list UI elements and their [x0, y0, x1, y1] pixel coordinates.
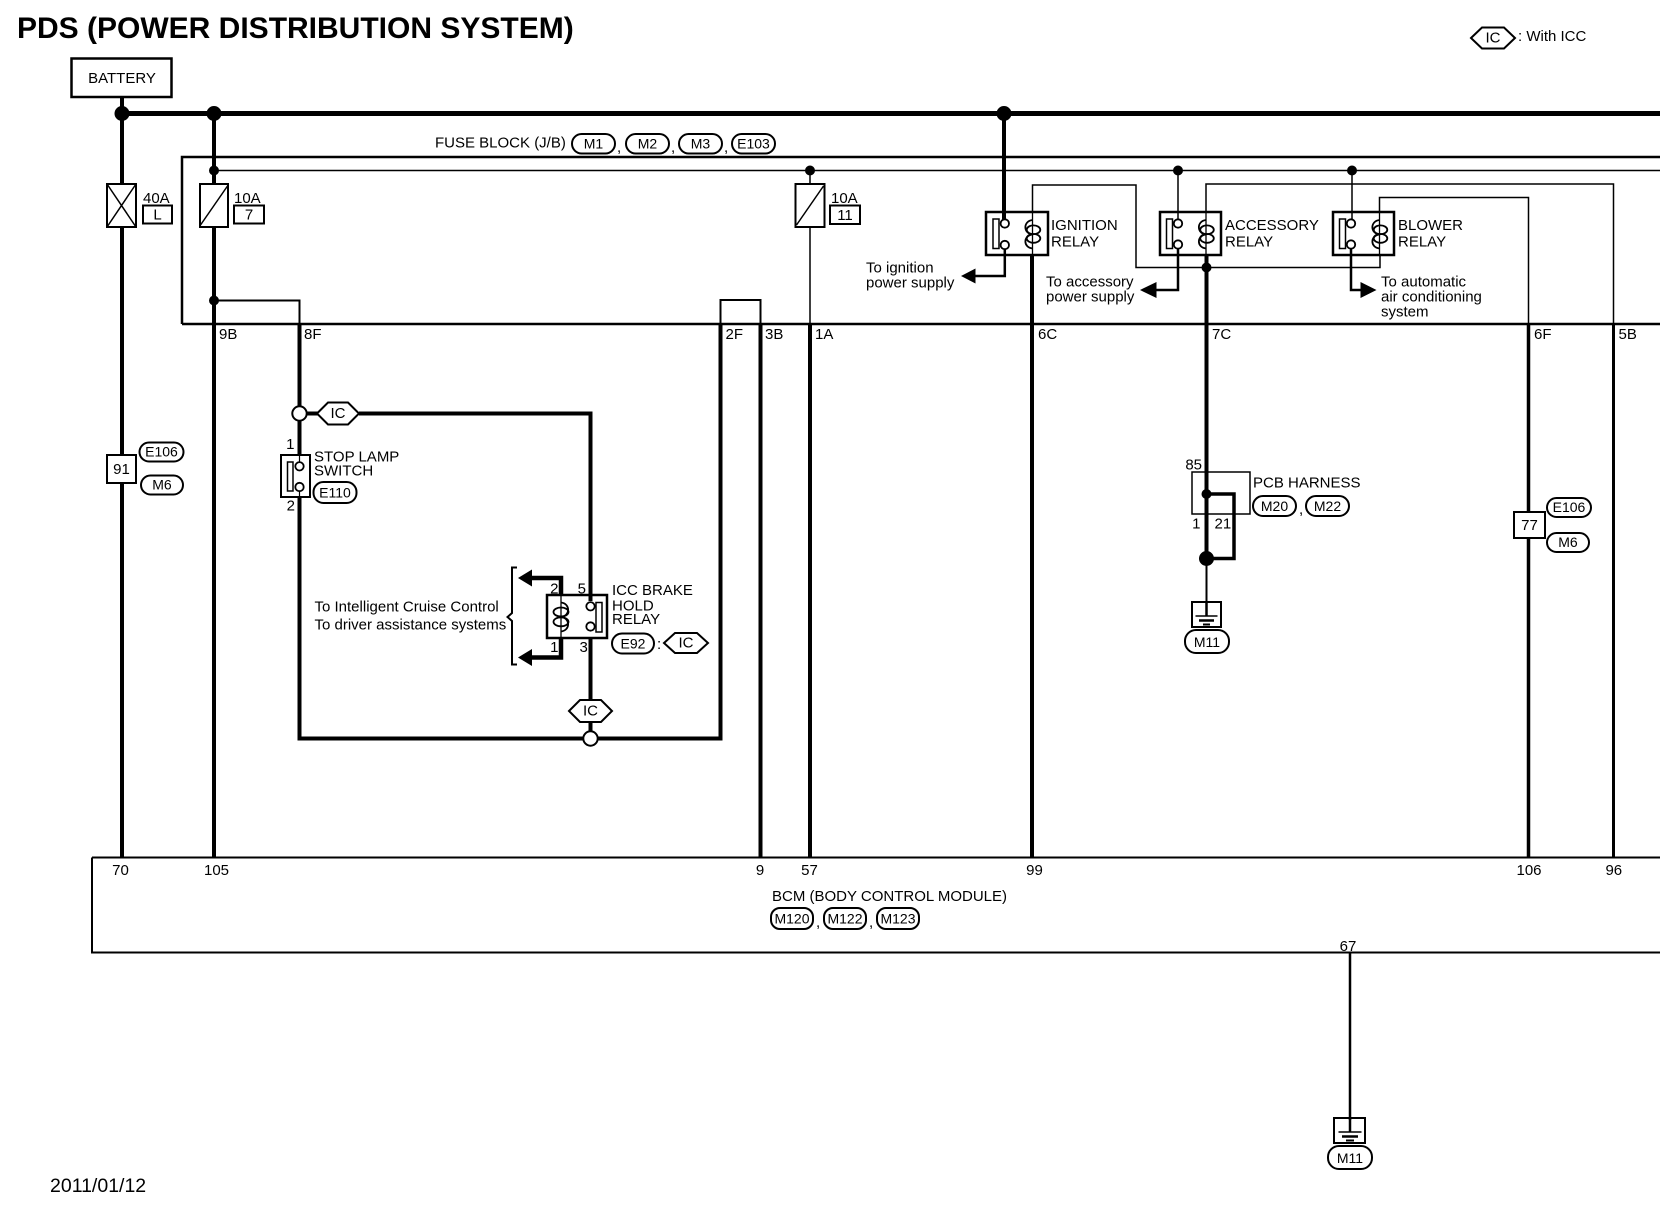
svg-text:91: 91 [113, 461, 130, 478]
wire 6F to BCM pin 106 [1527, 324, 1531, 857]
svg-text:: With ICC: : With ICC [1518, 28, 1587, 45]
svg-text:ICC BRAKE: ICC BRAKE [612, 582, 693, 599]
wire circle to IC flag [307, 412, 319, 416]
svg-text:IC: IC [679, 635, 694, 652]
bracket ICC arrows [508, 568, 518, 665]
BCM pin 70 [112, 862, 129, 879]
wire battery to bus [120, 97, 124, 113]
terminal 5B [1619, 326, 1637, 343]
fuse block internal bus [214, 170, 1660, 172]
connector 77 box [1514, 512, 1545, 538]
svg-text:M6: M6 [152, 477, 172, 493]
wire tap to accessory relay contact [1177, 171, 1179, 221]
IC flag stop lamp branch [317, 403, 359, 425]
svg-text:11: 11 [837, 207, 853, 224]
svg-text:1: 1 [1192, 516, 1200, 533]
wire PCB pin 1 [1205, 494, 1209, 559]
svg-text:,: , [1299, 501, 1303, 518]
label blower relay [1398, 217, 1463, 251]
svg-text:power supply: power supply [1046, 289, 1135, 306]
svg-text:PDS (POWER DISTRIBUTION SYSTEM: PDS (POWER DISTRIBUTION SYSTEM) [17, 12, 574, 45]
svg-text:system: system [1381, 304, 1429, 321]
junction PCB pin 85 [1202, 489, 1212, 499]
connector ref M6 right [1547, 533, 1589, 552]
blower relay [1333, 212, 1394, 255]
wire accessory coil top to 5B [1206, 184, 1614, 324]
pin 2 label [550, 581, 558, 598]
svg-text:RELAY: RELAY [612, 611, 660, 628]
svg-text:,: , [724, 139, 728, 156]
junction accessory relay tap [1173, 166, 1183, 176]
svg-text:RELAY: RELAY [1225, 234, 1273, 251]
svg-text::: : [657, 636, 661, 653]
pin 1 stop lamp switch [286, 436, 294, 453]
svg-text:M6: M6 [1558, 534, 1578, 550]
IC flag bottom [569, 700, 612, 722]
wire fusible link to BCM pin 70 [120, 227, 124, 857]
IC flag brake relay [664, 633, 708, 653]
svg-text:E103: E103 [737, 136, 770, 152]
svg-text:M123: M123 [880, 911, 915, 927]
wire IC branch to relay pin 5 [359, 414, 591, 602]
svg-text:IC: IC [583, 703, 598, 720]
ground symbol M11 upper [1192, 602, 1221, 627]
note to intelligent cruise control [315, 599, 507, 634]
wire bus to ignition relay contact [1002, 113, 1006, 220]
pin 2 stop lamp switch [287, 498, 295, 515]
note to accessory power supply [1046, 274, 1135, 306]
svg-text:RELAY: RELAY [1398, 234, 1446, 251]
terminal link box 2F-3B [721, 300, 761, 324]
ground symbol M11 lower [1334, 1118, 1365, 1143]
connector 91 box [107, 455, 136, 483]
connector ref M11 upper [1185, 630, 1229, 653]
svg-text:ACCESSORY: ACCESSORY [1225, 217, 1319, 234]
svg-text:PCB HARNESS: PCB HARNESS [1253, 475, 1361, 492]
junction 8F branch [209, 296, 219, 306]
terminal 9B [219, 326, 237, 343]
svg-text:,: , [617, 139, 621, 156]
label ignition relay [1051, 217, 1118, 251]
svg-text:IC: IC [1486, 30, 1501, 47]
svg-text:BLOWER: BLOWER [1398, 217, 1463, 234]
svg-text:3: 3 [580, 639, 588, 656]
fuse id box 7 [234, 206, 264, 224]
svg-text:M11: M11 [1194, 634, 1220, 650]
svg-text:E106: E106 [1553, 499, 1586, 515]
wire accessory coil bottom to 7C [1205, 255, 1209, 324]
svg-text:57: 57 [801, 862, 818, 879]
svg-text:FUSE BLOCK (J/B): FUSE BLOCK (J/B) [435, 135, 566, 152]
svg-text:10A: 10A [234, 190, 261, 207]
PCB harness box [1192, 472, 1250, 514]
wire bus to fuse 7 [212, 113, 216, 184]
junction internal bus tap [209, 166, 219, 176]
svg-text:L: L [153, 207, 161, 224]
junction battery bus [115, 106, 130, 121]
label PCB harness [1253, 475, 1361, 492]
wire 6C to BCM pin 99 [1030, 324, 1034, 857]
svg-text:6C: 6C [1038, 326, 1057, 343]
svg-text:M1: M1 [584, 136, 604, 152]
svg-text:1: 1 [550, 639, 558, 656]
connector ref M122 [824, 908, 873, 931]
wire relay pin 1 arrow [518, 637, 561, 666]
BCM pin 67 [1340, 938, 1357, 955]
svg-text:105: 105 [204, 862, 229, 879]
accessory relay [1160, 212, 1221, 255]
junction fuse 7 feed [207, 106, 222, 121]
connector ref M123 [877, 908, 919, 929]
svg-text:5B: 5B [1619, 326, 1637, 343]
svg-text:2011/01/12: 2011/01/12 [50, 1175, 146, 1197]
label accessory relay [1225, 217, 1319, 251]
pin 21 label PCB [1215, 516, 1232, 533]
wire bottom loop [298, 737, 723, 741]
svg-text:,: , [869, 914, 873, 931]
wire stop lamp switch to loop [298, 497, 302, 741]
wire ignition coil to 6C [1030, 255, 1034, 324]
terminal 6F [1534, 326, 1552, 343]
fuse block J/B box [182, 157, 1660, 324]
svg-text:To driver assistance systems: To driver assistance systems [315, 617, 507, 634]
value label 40A [143, 190, 170, 207]
note to automatic air conditioning system [1381, 274, 1482, 321]
wire node to ground [1206, 559, 1208, 605]
connector ref E92 [612, 634, 661, 654]
svg-text:7C: 7C [1212, 326, 1231, 343]
wire ignition relay output arrow [961, 249, 1005, 284]
wire tap to blower relay contact [1351, 171, 1353, 221]
wire relay pin 2 arrow [518, 570, 561, 597]
connector ref M11 lower [1328, 1146, 1372, 1169]
connector ref E103 [732, 134, 775, 154]
label BCM [772, 888, 1007, 905]
svg-text:IC: IC [331, 405, 346, 422]
title PDS [17, 12, 574, 45]
connector ref M6 left [141, 476, 183, 495]
pin 5 label [578, 581, 586, 598]
svg-text:To Intelligent Cruise Control: To Intelligent Cruise Control [315, 599, 499, 616]
fuse 7 10A [200, 184, 228, 227]
svg-text:M11: M11 [1337, 1150, 1363, 1166]
node ICC loop circle [583, 731, 597, 745]
terminal 7C [1212, 326, 1231, 343]
wire fuse 7 to 9B [212, 227, 216, 324]
svg-text:10A: 10A [831, 190, 858, 207]
wire IC flag to loop node [589, 722, 593, 732]
svg-text:RELAY: RELAY [1051, 234, 1099, 251]
svg-text:21: 21 [1215, 516, 1232, 533]
svg-text:power supply: power supply [866, 275, 955, 292]
wire 3B to BCM pin 9 [759, 324, 763, 857]
wire 5B to BCM pin 96 [1612, 324, 1615, 857]
svg-text:2F: 2F [726, 326, 744, 343]
node IC branch circle [292, 406, 306, 420]
value label 10A fuse 7 [234, 190, 261, 207]
note to ignition power supply [866, 260, 955, 292]
svg-text:8F: 8F [304, 326, 322, 343]
connector ref E106 right [1547, 498, 1591, 517]
battery [72, 59, 172, 98]
BCM pin 9 [756, 862, 764, 879]
wire blower relay output arrow [1351, 249, 1377, 299]
connector ref M22 [1306, 496, 1349, 516]
svg-text:BATTERY: BATTERY [88, 70, 156, 87]
wire tap to fuse 11 [809, 171, 811, 185]
svg-text:IGNITION: IGNITION [1051, 217, 1118, 234]
pin 1 label [550, 639, 558, 656]
pin 3 label [580, 639, 588, 656]
connector ref E106 left [140, 443, 184, 462]
fuse id box 11 [830, 206, 860, 225]
svg-text:9: 9 [756, 862, 764, 879]
wire 1A to BCM pin 57 [808, 324, 812, 857]
svg-text:1A: 1A [815, 326, 833, 343]
wire bus to fusible link 40A [120, 113, 124, 184]
terminal 6C [1038, 326, 1057, 343]
svg-text:106: 106 [1516, 862, 1541, 879]
terminal 3B [765, 326, 783, 343]
terminal 8F [304, 326, 322, 343]
svg-text:M122: M122 [827, 911, 862, 927]
ignition relay [986, 212, 1048, 255]
fuse block label [435, 135, 566, 152]
junction fuse 11 tap [805, 166, 815, 176]
svg-text:70: 70 [112, 862, 129, 879]
BCM box [92, 858, 1660, 953]
svg-text:7: 7 [245, 207, 253, 224]
wire 7C to PCB harness [1205, 324, 1209, 494]
wire relay pin 3 to IC flag [589, 637, 593, 701]
svg-text:2: 2 [287, 498, 295, 515]
junction accessory coil node [1202, 263, 1212, 273]
wire accessory relay output arrow [1140, 249, 1178, 299]
svg-text:6F: 6F [1534, 326, 1552, 343]
wire 8F branch [214, 301, 300, 325]
wire 8F to stop lamp switch [298, 324, 302, 455]
junction ground node [1199, 551, 1214, 566]
svg-text:67: 67 [1340, 938, 1357, 955]
svg-text:M2: M2 [638, 136, 658, 152]
value label 10A fuse 11 [831, 190, 858, 207]
fuse id box L [143, 206, 172, 224]
pin 85 label [1185, 457, 1202, 474]
BCM pin 57 [801, 862, 818, 879]
BCM pin 96 [1605, 862, 1622, 879]
fusible link 40A L [107, 184, 136, 227]
connector ref M20 [1253, 496, 1303, 518]
svg-text:M20: M20 [1261, 498, 1288, 514]
connector ref M1 [572, 134, 621, 156]
svg-text:M22: M22 [1314, 498, 1341, 514]
terminal 1A [815, 326, 833, 343]
svg-text:,: , [671, 139, 675, 156]
svg-text:96: 96 [1605, 862, 1622, 879]
svg-text:99: 99 [1026, 862, 1043, 879]
connector ref E110 [314, 482, 357, 503]
connector ref M120 [771, 908, 820, 931]
svg-text:M120: M120 [774, 911, 809, 927]
svg-text:,: , [816, 914, 820, 931]
BCM pin 106 [1516, 862, 1541, 879]
svg-text:E92: E92 [621, 636, 646, 652]
wire BCM 67 to ground [1349, 953, 1352, 1121]
fuse 11 10A [796, 184, 825, 227]
svg-text:40A: 40A [143, 190, 170, 207]
connector ref M2 [626, 134, 675, 156]
BCM pin 99 [1026, 862, 1043, 879]
wire 9B to BCM pin 105 [212, 324, 216, 857]
svg-text:E110: E110 [319, 485, 351, 501]
main battery bus [120, 111, 1660, 116]
svg-text:1: 1 [286, 436, 294, 453]
svg-text:77: 77 [1521, 517, 1538, 534]
legend text With ICC [1518, 28, 1587, 45]
wire 2F down [719, 324, 723, 741]
svg-text:E106: E106 [145, 444, 178, 460]
label ICC brake hold relay [612, 582, 693, 628]
svg-text:3B: 3B [765, 326, 783, 343]
terminal 2F [726, 326, 744, 343]
wire blower coil top to 6F [1380, 198, 1529, 325]
wire PCB pin 21 branch [1207, 494, 1235, 559]
legend IC flag symbol [1471, 28, 1515, 49]
svg-text:M3: M3 [691, 136, 711, 152]
wire ignition coil top to relay coils node [1033, 185, 1381, 268]
junction ignition relay feed [997, 106, 1012, 121]
junction blower relay tap [1347, 166, 1357, 176]
label stop lamp switch [314, 449, 399, 480]
wire fuse 11 to 1A [809, 227, 811, 324]
svg-text:BCM (BODY CONTROL MODULE): BCM (BODY CONTROL MODULE) [772, 888, 1007, 905]
svg-text:9B: 9B [219, 326, 237, 343]
stop lamp switch [281, 455, 310, 497]
connector ref M3 [679, 134, 728, 156]
BCM pin 105 [204, 862, 229, 879]
ICC brake hold relay [547, 595, 607, 638]
svg-text:SWITCH: SWITCH [314, 463, 373, 480]
svg-text:85: 85 [1185, 457, 1202, 474]
pin 1 label PCB [1192, 516, 1200, 533]
date stamp [50, 1175, 146, 1197]
